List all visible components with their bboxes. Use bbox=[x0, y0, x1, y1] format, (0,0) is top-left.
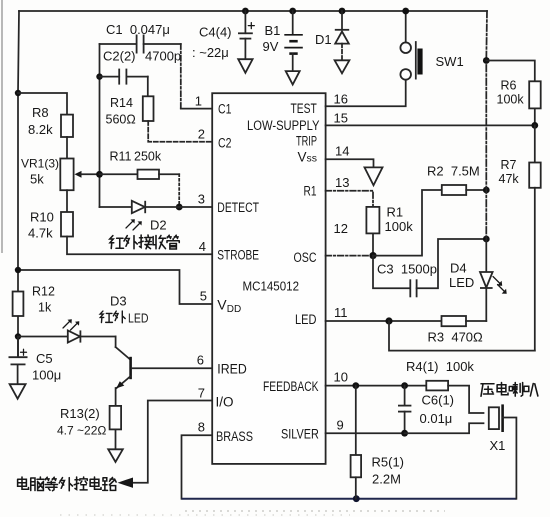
potentiometer VR1 body bbox=[60, 159, 73, 191]
wire C2 to R14 bbox=[147, 77, 149, 97]
wire pin3 bbox=[100, 206, 213, 208]
svg-text:1: 1 bbox=[195, 94, 202, 109]
svg-text:DD: DD bbox=[227, 304, 241, 315]
svg-text:LED: LED bbox=[295, 312, 317, 327]
svg-text:5k: 5k bbox=[30, 172, 44, 187]
svg-text:5: 5 bbox=[200, 289, 207, 304]
resistor R12 bbox=[13, 292, 24, 317]
svg-text:R7: R7 bbox=[501, 158, 517, 172]
wire C1/C2 left node rail bbox=[99, 44, 101, 207]
wire VR1 to R10 bbox=[66, 190, 68, 212]
wire OSC to R2 bbox=[373, 190, 442, 256]
svg-text:D4: D4 bbox=[450, 261, 467, 276]
svg-text:100μ: 100μ bbox=[32, 368, 61, 383]
node dot SW1 top bbox=[402, 8, 409, 15]
resistor R8 bbox=[61, 115, 73, 137]
svg-text:FEEDBACK: FEEDBACK bbox=[263, 379, 319, 394]
resistor R11 bbox=[100, 170, 180, 179]
transistor Q1 bbox=[116, 337, 132, 406]
wire top rail bbox=[19, 10, 487, 12]
label yadian laba (piezo speaker) bbox=[481, 383, 538, 397]
node dot rail R6 branch bbox=[483, 57, 490, 64]
IC U1 MC145012 bbox=[212, 93, 325, 464]
capacitor C4 bbox=[238, 8, 254, 60]
svg-text:B1: B1 bbox=[265, 23, 281, 38]
wire R5 vertical bbox=[355, 386, 357, 455]
switch SW1 bbox=[400, 11, 422, 80]
wire R10 to pin4 bbox=[67, 237, 212, 255]
node dot pin5 branch bbox=[15, 267, 21, 273]
wire rail to R6 top bbox=[486, 61, 535, 82]
wire to R8 bbox=[18, 93, 67, 115]
label hongwai LED (IR LED) bbox=[100, 311, 125, 323]
resistor R3 bbox=[442, 316, 467, 326]
svg-text:DETECT: DETECT bbox=[217, 200, 259, 215]
capacitor C5 bbox=[9, 337, 28, 385]
svg-text:3: 3 bbox=[198, 192, 205, 207]
wire pin13 dash-dot bbox=[326, 191, 373, 207]
wire R7 down right rail bbox=[534, 188, 536, 351]
D3 emitted IR arrows bbox=[63, 319, 79, 330]
svg-text:250k: 250k bbox=[134, 150, 162, 164]
node dot R6/R7 junction bbox=[531, 122, 538, 129]
D4 emitted arrows bbox=[493, 277, 507, 294]
svg-text:R4(1) 100k: R4(1) 100k bbox=[406, 359, 474, 374]
svg-text:11: 11 bbox=[334, 305, 348, 320]
scan artifact left edge line bbox=[1, 0, 3, 253]
svg-text:D3: D3 bbox=[110, 294, 127, 309]
wire R4 to X1 top bbox=[448, 386, 483, 413]
wire pin8 route bbox=[182, 435, 213, 498]
svg-text:C5: C5 bbox=[36, 351, 53, 366]
wire left rail bbox=[18, 11, 19, 270]
svg-text:R1: R1 bbox=[304, 184, 317, 199]
wire R1 bottom bbox=[372, 233, 374, 255]
svg-text:C1: C1 bbox=[218, 101, 232, 116]
wire R13 to ground bbox=[115, 429, 117, 449]
svg-text:4700p: 4700p bbox=[145, 49, 181, 64]
svg-text:I/O: I/O bbox=[216, 395, 234, 410]
resistor R4 bbox=[426, 381, 448, 391]
piezo X1 bbox=[489, 404, 517, 498]
wire pin11 junction to R7 rail bbox=[389, 321, 535, 351]
svg-text:: ~22μ: : ~22μ bbox=[192, 45, 229, 60]
svg-text:Vss: Vss bbox=[298, 150, 318, 165]
wire R3 to D4 bbox=[466, 320, 486, 322]
resistor R1 bbox=[366, 207, 379, 234]
svg-text:13: 13 bbox=[335, 175, 349, 190]
svg-text:15: 15 bbox=[334, 111, 348, 126]
svg-text:C3 1500p: C3 1500p bbox=[377, 262, 437, 277]
svg-text:R2 7.5M: R2 7.5M bbox=[427, 164, 480, 179]
svg-text:2.2M: 2.2M bbox=[372, 472, 401, 487]
svg-text:D2: D2 bbox=[150, 218, 167, 233]
svg-text:R14: R14 bbox=[110, 96, 133, 110]
svg-text:SW1: SW1 bbox=[436, 54, 464, 69]
resistor R14 bbox=[143, 96, 154, 121]
wire VR1 wiper to node bbox=[81, 173, 100, 175]
node dot R2 rail bbox=[483, 187, 490, 194]
ground below C5 bbox=[10, 384, 26, 399]
wire R8 to VR1 bbox=[66, 137, 68, 159]
svg-text:LED: LED bbox=[449, 275, 474, 290]
wire pin7 I/O route bbox=[133, 401, 212, 483]
wire right rail dash-dot upper bbox=[485, 11, 488, 239]
wire pin9 to X1 bottom bbox=[405, 423, 484, 433]
svg-text:C2(2): C2(2) bbox=[103, 49, 136, 64]
resistor R10 bbox=[61, 212, 73, 237]
node dot C3 rail bbox=[483, 236, 490, 243]
svg-text:1k: 1k bbox=[38, 301, 52, 315]
svg-text:TEST: TEST bbox=[291, 101, 317, 116]
resistor R2 bbox=[442, 185, 466, 195]
svg-text:C6(1): C6(1) bbox=[422, 393, 455, 408]
svg-text:R1: R1 bbox=[387, 205, 404, 220]
wire pin9 bbox=[326, 432, 405, 434]
D2 incoming IR arrows bbox=[126, 219, 142, 230]
svg-text:100k: 100k bbox=[497, 93, 525, 107]
battery B1 bbox=[284, 8, 303, 72]
node dot left rail / R8 branch bbox=[15, 90, 21, 96]
wire bottom rail bbox=[182, 498, 517, 500]
wire R14 to pin2 dashed bbox=[148, 121, 212, 142]
resistor R6 bbox=[529, 81, 541, 108]
diode D2 bbox=[132, 201, 145, 213]
capacitor C2 bbox=[100, 69, 148, 85]
resistor R7 bbox=[529, 163, 541, 188]
svg-text:TRIP: TRIP bbox=[296, 134, 317, 149]
node dot pin11 junction bbox=[385, 317, 392, 324]
svg-text:560Ω: 560Ω bbox=[106, 113, 136, 127]
svg-text:C4(4): C4(4) bbox=[199, 25, 232, 40]
svg-text:4.7 ~22Ω: 4.7 ~22Ω bbox=[57, 424, 106, 438]
wire pin1 stub bbox=[181, 108, 212, 110]
label diannao external control circuit bbox=[18, 477, 116, 491]
wire pin11 bbox=[326, 320, 442, 322]
wire R5 bottom bbox=[355, 477, 357, 498]
wire to D3 bbox=[18, 336, 68, 338]
svg-text:10: 10 bbox=[334, 370, 348, 385]
resistor R13 bbox=[110, 406, 122, 430]
wire pin6 base bbox=[132, 367, 212, 369]
svg-text:2: 2 bbox=[198, 127, 205, 142]
svg-text:R10: R10 bbox=[30, 210, 54, 225]
svg-text:IRED: IRED bbox=[217, 361, 247, 376]
svg-text:8.2k: 8.2k bbox=[28, 122, 53, 137]
svg-text:16: 16 bbox=[334, 92, 348, 107]
node dot pin9 C6 bbox=[401, 430, 408, 437]
scan noise bottom bbox=[185, 510, 445, 512]
ground below B1 bbox=[286, 71, 300, 85]
svg-text:R3 470Ω: R3 470Ω bbox=[428, 330, 484, 345]
svg-text:R12: R12 bbox=[32, 285, 55, 299]
label hongwai-jieshouguan (IR receiver) bbox=[110, 235, 180, 249]
svg-text:4: 4 bbox=[199, 239, 206, 254]
svg-text:R6: R6 bbox=[501, 79, 517, 93]
svg-text:47k: 47k bbox=[499, 172, 520, 186]
svg-text:SILVER: SILVER bbox=[281, 426, 319, 441]
node dot D3 branch bbox=[15, 333, 21, 339]
wire R12 top stub bbox=[17, 270, 19, 292]
svg-text:9: 9 bbox=[337, 418, 344, 433]
svg-text:7: 7 bbox=[198, 386, 205, 401]
node dot pin3 junction bbox=[176, 204, 183, 211]
svg-text:MC145012: MC145012 bbox=[243, 279, 300, 293]
svg-text:12: 12 bbox=[334, 221, 348, 236]
svg-text:VR1(3): VR1(3) bbox=[21, 157, 59, 171]
svg-text:0.01μ: 0.01μ bbox=[420, 411, 453, 426]
wire junction to R7 bbox=[534, 125, 536, 162]
resistor R5 bbox=[351, 455, 362, 477]
wire pin16 to SW1 bbox=[326, 80, 406, 106]
wire R2 to rail bbox=[466, 189, 486, 191]
node dot C6 top bbox=[401, 382, 408, 389]
capacitor C6 bbox=[398, 386, 411, 434]
wire pin12 OSC dash-dot bbox=[326, 255, 373, 257]
svg-text:R13(2): R13(2) bbox=[60, 406, 100, 421]
potentiometer VR1 wiper arrow bbox=[75, 171, 82, 178]
LED D4 bbox=[480, 272, 493, 321]
capacitor C3 loop bbox=[373, 239, 486, 297]
ground below R13 bbox=[108, 449, 123, 462]
svg-text:LOW-SUPPLY: LOW-SUPPLY bbox=[247, 118, 320, 133]
ground at pin14 bbox=[365, 167, 383, 185]
svg-text:8: 8 bbox=[198, 420, 205, 435]
svg-text:LED: LED bbox=[128, 312, 149, 326]
svg-text:6: 6 bbox=[197, 353, 204, 368]
svg-text:100k: 100k bbox=[385, 219, 414, 234]
capacitor C1 bbox=[100, 35, 181, 54]
ground below C4 bbox=[238, 59, 252, 73]
svg-text:R5(1): R5(1) bbox=[372, 455, 405, 470]
svg-text:OSC: OSC bbox=[294, 250, 317, 265]
node dot R5 bottom bbox=[353, 495, 360, 502]
svg-text:R11: R11 bbox=[110, 150, 132, 164]
node dot R5 top bbox=[352, 382, 359, 389]
wire left rail lower bbox=[17, 316, 19, 357]
svg-text:R8: R8 bbox=[32, 105, 49, 120]
svg-text:BRASS: BRASS bbox=[216, 429, 253, 444]
svg-text:V: V bbox=[217, 297, 227, 313]
wire R11 to pin3 dotted bbox=[178, 174, 180, 207]
wire pin10 bbox=[326, 385, 427, 387]
wire VDD pin5 route bbox=[18, 270, 212, 304]
arrow external control bbox=[118, 478, 134, 488]
wire pin14 to ground bbox=[326, 159, 374, 167]
svg-text:C2: C2 bbox=[218, 135, 232, 150]
wire R6 bottom to junction bbox=[534, 108, 536, 125]
node dot OSC junction bbox=[369, 252, 376, 259]
LED D3 bbox=[68, 330, 116, 342]
node dot C2 left bbox=[96, 73, 102, 79]
svg-text:X1: X1 bbox=[490, 438, 506, 453]
wire pin1 dashed vertical bbox=[180, 44, 182, 109]
node dot VR1 wiper junction bbox=[96, 171, 103, 178]
ground below D1 bbox=[335, 60, 350, 73]
wire D4 top bbox=[485, 239, 487, 272]
svg-text:C1 0.047μ: C1 0.047μ bbox=[106, 22, 170, 37]
svg-text:9V: 9V bbox=[263, 39, 279, 54]
svg-text:14: 14 bbox=[335, 144, 349, 159]
svg-text:D1: D1 bbox=[315, 32, 332, 47]
svg-text:STROBE: STROBE bbox=[217, 247, 259, 262]
diode D1 bbox=[335, 8, 349, 61]
svg-text:4.7k: 4.7k bbox=[28, 226, 53, 241]
wire pin15 to R6/R7 junction bbox=[326, 124, 535, 126]
